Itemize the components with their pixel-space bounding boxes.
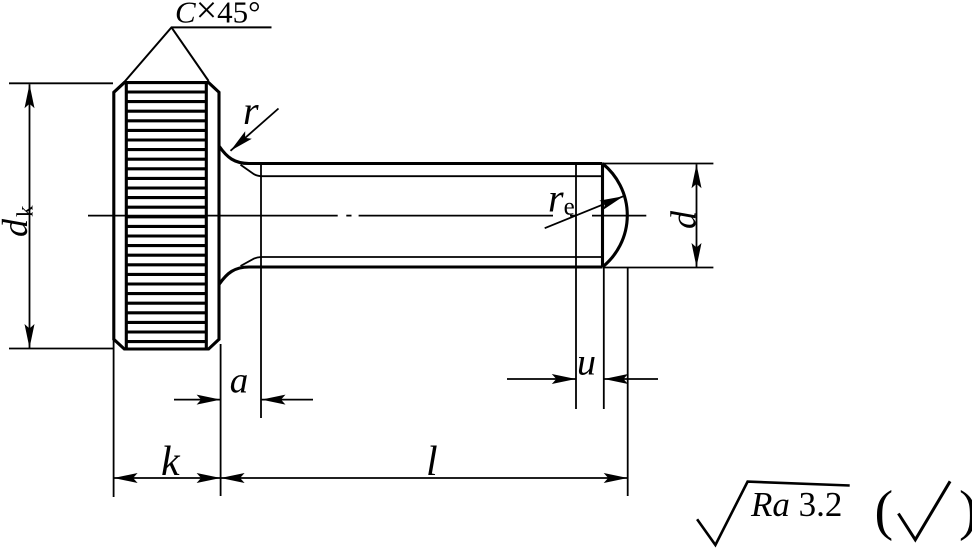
svg-text:l: l [426,439,438,485]
svg-text:a: a [230,361,249,402]
svg-text:C×45°: C×45° [175,0,261,32]
svg-text:): ) [959,480,972,542]
svg-text:d: d [664,210,704,229]
svg-text:u: u [577,342,596,384]
svg-text:r: r [243,88,259,133]
svg-text:k: k [161,439,181,485]
svg-text:(: ( [875,480,894,542]
svg-text:Ra 3.2: Ra 3.2 [750,485,842,524]
